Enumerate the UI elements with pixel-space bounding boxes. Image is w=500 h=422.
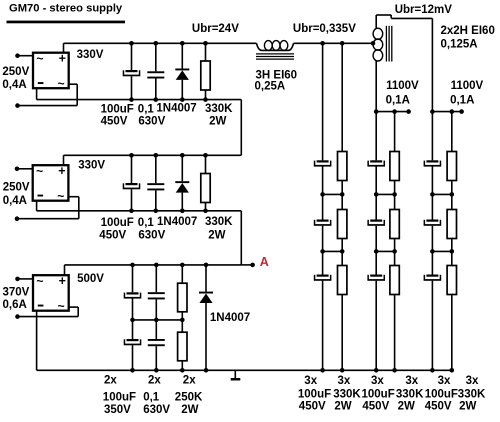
svg-text:Ubr=0,335V: Ubr=0,335V: [293, 23, 356, 35]
svg-text:A: A: [260, 255, 269, 269]
svg-text:3x: 3x: [338, 375, 351, 387]
svg-text:450V: 450V: [299, 401, 326, 413]
svg-text:0,1: 0,1: [138, 217, 155, 229]
svg-text:+: +: [58, 164, 65, 178]
svg-text:2x: 2x: [183, 375, 196, 387]
svg-text:330V: 330V: [77, 49, 104, 61]
svg-text:~: ~: [58, 299, 65, 313]
svg-text:Ubr=24V: Ubr=24V: [192, 23, 239, 35]
svg-text:330K: 330K: [205, 216, 233, 228]
svg-text:1100V: 1100V: [386, 80, 419, 92]
svg-text:2W: 2W: [459, 401, 476, 413]
svg-text:630V: 630V: [138, 115, 165, 127]
svg-text:1100V: 1100V: [451, 80, 484, 92]
svg-text:2W: 2W: [334, 401, 351, 413]
svg-text:~: ~: [36, 274, 43, 288]
svg-text:0,25A: 0,25A: [255, 81, 286, 93]
svg-text:330K: 330K: [396, 389, 424, 401]
svg-text:3x: 3x: [438, 375, 451, 387]
svg-text:3x: 3x: [405, 375, 418, 387]
svg-text:370V: 370V: [3, 287, 30, 299]
svg-text:2W: 2W: [181, 404, 198, 416]
svg-text:100uF: 100uF: [101, 217, 134, 229]
svg-text:0,125A: 0,125A: [441, 39, 478, 51]
svg-text:2x2H EI60: 2x2H EI60: [441, 25, 495, 37]
svg-text:3x: 3x: [371, 375, 384, 387]
svg-text:330V: 330V: [78, 159, 105, 171]
svg-text:2W: 2W: [209, 115, 226, 127]
svg-text:450V: 450V: [362, 401, 389, 413]
svg-text:Ubr=12mV: Ubr=12mV: [395, 4, 453, 16]
svg-text:3x: 3x: [304, 375, 317, 387]
svg-text:100uF: 100uF: [103, 391, 136, 403]
svg-text:3x: 3x: [466, 375, 479, 387]
svg-text:2W: 2W: [398, 401, 415, 413]
svg-text:2x: 2x: [148, 375, 161, 387]
svg-text:~: ~: [58, 77, 65, 91]
svg-text:630V: 630V: [138, 229, 165, 241]
svg-text:100uF: 100uF: [298, 389, 331, 401]
svg-text:~: ~: [36, 164, 43, 178]
svg-text:350V: 350V: [104, 404, 131, 416]
svg-text:+: +: [59, 274, 66, 288]
svg-text:100uF: 100uF: [362, 389, 395, 401]
svg-text:450V: 450V: [99, 229, 126, 241]
svg-text:~: ~: [57, 189, 64, 203]
svg-text:250V: 250V: [3, 181, 30, 193]
svg-text:0,4A: 0,4A: [3, 195, 27, 207]
svg-text:1N4007: 1N4007: [157, 216, 197, 228]
svg-text:3H EI60: 3H EI60: [256, 69, 298, 81]
svg-text:2x: 2x: [104, 375, 117, 387]
svg-text:500V: 500V: [77, 273, 104, 285]
svg-text:630V: 630V: [143, 404, 170, 416]
svg-text:330K: 330K: [205, 103, 233, 115]
svg-text:2W: 2W: [208, 229, 225, 241]
svg-text:100uF: 100uF: [101, 104, 134, 116]
svg-text:0,1: 0,1: [138, 104, 155, 116]
svg-text:100uF: 100uF: [425, 389, 458, 401]
svg-text:0,6A: 0,6A: [3, 299, 27, 311]
svg-text:330K: 330K: [458, 389, 486, 401]
svg-text:330K: 330K: [333, 389, 361, 401]
svg-text:1N4007: 1N4007: [210, 312, 250, 324]
svg-text:GM70 - stereo supply: GM70 - stereo supply: [9, 3, 123, 15]
svg-text:0,1A: 0,1A: [450, 95, 474, 107]
svg-text:1N4007: 1N4007: [156, 103, 196, 115]
svg-text:250V: 250V: [2, 66, 29, 78]
svg-text:250K: 250K: [175, 391, 203, 403]
svg-text:450V: 450V: [101, 115, 128, 127]
svg-text:450V: 450V: [425, 401, 452, 413]
svg-text:0,1A: 0,1A: [386, 95, 410, 107]
svg-text:0,4A: 0,4A: [2, 79, 26, 91]
svg-text:+: +: [59, 51, 66, 65]
svg-text:0,1: 0,1: [143, 391, 160, 403]
svg-text:~: ~: [36, 52, 43, 66]
